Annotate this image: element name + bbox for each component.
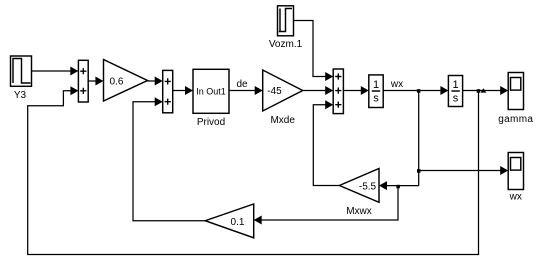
svg-text:Vozm.1: Vozm.1 — [269, 39, 303, 50]
scope gamma — [508, 73, 523, 110]
integrator I1 — [369, 75, 383, 108]
gain 0.6 — [104, 60, 148, 102]
node wx scope branch — [417, 169, 421, 173]
step source Vozm.1 — [278, 6, 294, 36]
svg-text:Y3: Y3 — [14, 90, 27, 101]
sum S1 — [78, 60, 88, 102]
svg-text:gamma: gamma — [498, 114, 533, 125]
svg-text:1: 1 — [373, 79, 379, 91]
wire de Privod to gain Mxde — [229, 86, 263, 95]
svg-text:-5.5: -5.5 — [359, 181, 377, 192]
svg-text:wx: wx — [509, 192, 522, 203]
sum S2 — [163, 70, 173, 112]
node wx — [417, 89, 421, 93]
node gamma branch — [477, 89, 481, 93]
svg-text:Mxwx: Mxwx — [346, 206, 372, 217]
svg-text:-45: -45 — [267, 86, 282, 97]
wire to scope wx — [419, 166, 509, 175]
wire Vozm.1 to sum S3 — [294, 21, 334, 82]
wire wx node down — [418, 91, 420, 186]
wire outer feedback loop — [28, 86, 479, 254]
wire node to gain 0.1 — [254, 186, 398, 225]
gain 0.1 — [205, 204, 254, 238]
svg-text:s: s — [373, 93, 379, 105]
wire Mxwx to sum S3 — [313, 100, 339, 185]
subsystem Privod — [193, 69, 229, 113]
svg-text:0.6: 0.6 — [110, 77, 124, 88]
wire 0.1 to sum S2 — [133, 97, 205, 221]
scope wx — [508, 153, 523, 190]
svg-text:In Out1: In Out1 — [196, 87, 226, 97]
svg-text:wx: wx — [390, 79, 403, 90]
wire S1 to gain 0.6 — [88, 77, 103, 86]
wire I1 to integrator I2 — [383, 86, 448, 95]
svg-text:s: s — [453, 93, 459, 105]
svg-text:Mxde: Mxde — [270, 115, 295, 126]
step source Y3 — [11, 56, 32, 86]
svg-text:Privod: Privod — [197, 117, 225, 128]
wire Y3 to sum S1 — [32, 67, 79, 76]
wire S3 to integrator I1 — [343, 86, 368, 95]
sum S3 — [333, 69, 343, 114]
svg-text:1: 1 — [452, 79, 458, 91]
gain Mxwx — [339, 169, 379, 203]
svg-text:de: de — [236, 79, 248, 90]
wire S2 to subsystem Privod — [173, 86, 193, 95]
wire to gain Mxwx — [379, 181, 419, 190]
wire I2 to scope gamma — [463, 86, 509, 95]
node 0.1 branch — [396, 185, 400, 189]
wire Mxde to sum S3 — [303, 86, 334, 95]
integrator I2 — [448, 76, 462, 107]
svg-text:0.1: 0.1 — [231, 217, 245, 228]
wire gain 0.6 to sum S2 — [148, 77, 163, 86]
gain Mxde — [263, 70, 303, 111]
